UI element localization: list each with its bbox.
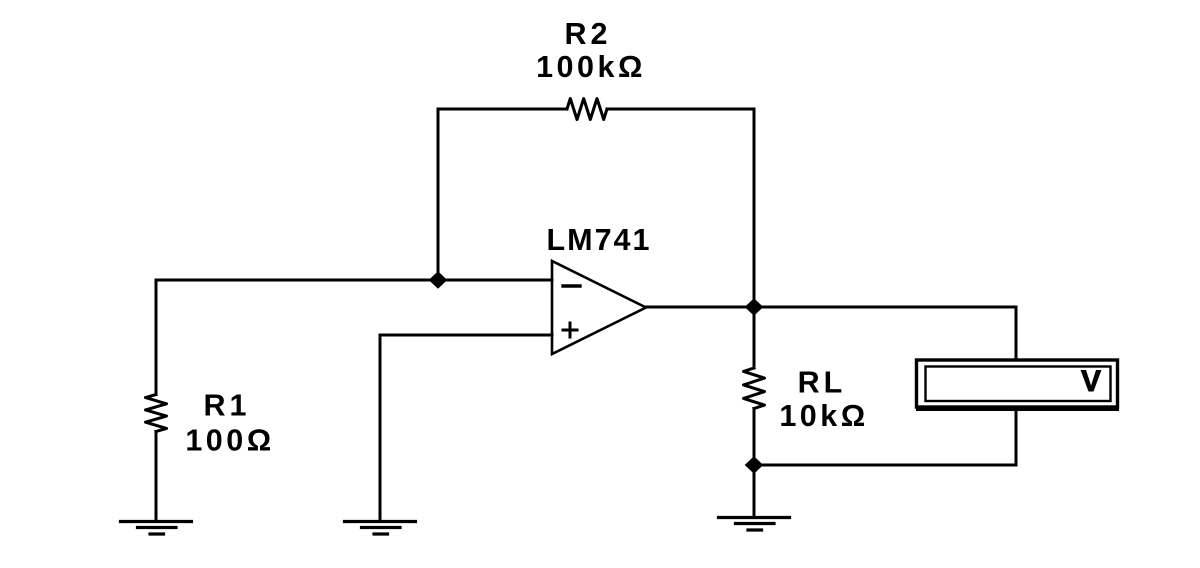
- label op-amp LM741: [547, 223, 652, 257]
- label R1 value 100Ohm: [185, 424, 274, 458]
- label R2 designator: [565, 17, 612, 51]
- wire voltmeter bottom lead: [1015, 410, 1018, 465]
- wire R2 right segment: [607, 108, 754, 111]
- wire output node down to RL: [753, 307, 756, 368]
- svg-text:V: V: [1081, 365, 1101, 398]
- wire inverting input horizontal (node A to op-amp): [156, 279, 552, 282]
- svg-text:100kΩ: 100kΩ: [536, 50, 646, 84]
- op-amp inverting pin minus sign: [563, 284, 580, 287]
- voltmeter inner display: [926, 367, 1111, 402]
- voltmeter M1 outer case: [917, 360, 1118, 407]
- label R2 value 100kOhm: [536, 50, 646, 84]
- wire RL bottom to node C: [753, 409, 756, 466]
- resistor R2: [567, 99, 607, 120]
- wire feedback left vertical (node A up to R2): [437, 109, 440, 280]
- ground (left, below R1): [121, 522, 192, 535]
- node A (inverting input junction): [429, 271, 448, 289]
- wire voltmeter top lead: [1015, 307, 1018, 359]
- wire output horizontal: [646, 306, 1016, 309]
- op-amp U1 LM741: [552, 261, 646, 354]
- wire non-inverting vertical to ground: [379, 335, 382, 520]
- label voltmeter V: [1081, 365, 1101, 398]
- wire bottom return (node C to voltmeter): [754, 464, 1016, 467]
- resistor RL: [744, 368, 765, 409]
- svg-text:R1: R1: [204, 389, 251, 423]
- wire R1 bottom to ground: [155, 432, 158, 521]
- svg-text:100Ω: 100Ω: [185, 424, 274, 458]
- svg-text:R2: R2: [565, 17, 612, 51]
- wire non-inverting input horizontal: [380, 334, 552, 337]
- svg-text:10kΩ: 10kΩ: [779, 399, 868, 433]
- wire R2 left segment: [438, 108, 567, 111]
- wire feedback right vertical (R2 down to output node): [753, 109, 756, 307]
- svg-text:RL: RL: [798, 366, 847, 400]
- label RL value 10kOhm: [779, 399, 868, 433]
- ground (middle, non-inverting input): [345, 522, 416, 535]
- node C (bottom junction): [745, 456, 764, 474]
- op-amp non-inverting pin plus sign: [563, 323, 577, 337]
- label R1 designator: [204, 389, 251, 423]
- ground (right, below RL): [719, 518, 790, 531]
- resistor R1: [146, 395, 167, 432]
- voltmeter case shadow bottom: [916, 406, 1119, 411]
- wire node C down to ground: [753, 465, 756, 516]
- wire left vertical (corner down to R1): [155, 280, 158, 395]
- label RL designator: [798, 366, 847, 400]
- node B (output junction): [745, 298, 764, 316]
- svg-text:LM741: LM741: [547, 223, 652, 257]
